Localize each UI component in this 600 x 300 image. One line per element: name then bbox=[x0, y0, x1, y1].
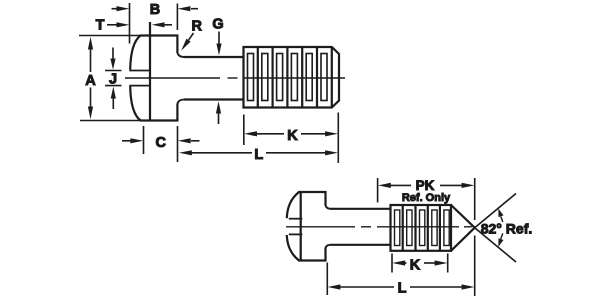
bottom fillet bottom bbox=[326, 245, 332, 249]
dimension G up arrow bbox=[218, 113, 220, 124]
bottom thread crest 3 bbox=[427, 205, 429, 251]
dimension L line and outward arrows bbox=[191, 152, 252, 154]
svg-text:A: A bbox=[85, 73, 96, 89]
thread root rect 3 bbox=[277, 54, 283, 101]
bottom thread root rect 3 bbox=[420, 210, 425, 246]
thread root rect 1 bbox=[248, 54, 254, 101]
bottom shank top line bbox=[331, 208, 392, 210]
extension line A bottom (head bottom extended) bbox=[80, 120, 140, 122]
slot bottom edge + J extension bbox=[105, 85, 122, 87]
bottom thread crest 1 bbox=[402, 205, 404, 251]
dimension J down arrow bbox=[112, 48, 114, 60]
dimension B left arrow bbox=[112, 8, 119, 10]
dimension K line and outward arrows bbox=[256, 133, 284, 135]
thread outline with chamfered end bbox=[244, 47, 340, 108]
extension line B right (head face) bbox=[176, 4, 178, 31]
bottom thread root rect 5 bbox=[444, 210, 449, 246]
head bottom line bbox=[140, 119, 179, 121]
dimension C left arrow bbox=[122, 140, 131, 142]
fillet R under head, top bbox=[177, 52, 184, 57]
bottom screw centerline (left stub) bbox=[286, 226, 355, 228]
extension line PK left bbox=[377, 178, 379, 203]
thread crest line 3 bbox=[286, 47, 288, 108]
svg-text:B: B bbox=[150, 2, 160, 18]
dimension B right arrow bbox=[191, 8, 198, 10]
bottom head face lower bbox=[324, 248, 326, 262]
svg-text:L: L bbox=[254, 147, 263, 163]
thread crest line 1 bbox=[257, 47, 259, 108]
bottom fillet top bbox=[326, 205, 332, 209]
thread root rect 4 bbox=[291, 54, 297, 101]
thread crest line 5 bbox=[316, 47, 318, 108]
centerline of top screw bbox=[125, 77, 220, 79]
screw head dome (left profile) bbox=[130, 36, 140, 70]
angle arrow upper bbox=[501, 217, 503, 223]
thread crest line 2 bbox=[272, 47, 274, 108]
extension line C left bbox=[143, 126, 145, 154]
svg-text:Ref. Only: Ref. Only bbox=[402, 192, 451, 204]
cone angle extension line upper bbox=[475, 194, 516, 228]
extension line C right / L left bbox=[177, 126, 179, 162]
dimension C right arrow bbox=[191, 140, 200, 142]
extension line PK/L right (through cone tip) bbox=[474, 178, 476, 220]
bottom thread box bbox=[391, 205, 452, 251]
svg-text:L: L bbox=[398, 280, 407, 296]
bottom shank bottom line bbox=[331, 244, 392, 246]
svg-text:T: T bbox=[96, 17, 105, 33]
dimension T left arrow bbox=[107, 24, 117, 26]
dimension A down arrow bbox=[90, 88, 92, 108]
slot bottom vertical line (extends above head for T) bbox=[149, 22, 151, 121]
slot top edge + J extension bbox=[105, 70, 122, 72]
leader arrow R (points to fillet) bbox=[189, 33, 194, 40]
extension line A top (head top extended) bbox=[79, 35, 141, 37]
thread root rect 5 bbox=[306, 54, 312, 101]
svg-text:K: K bbox=[287, 128, 298, 144]
thread root rect 6 bbox=[321, 54, 327, 101]
extension line B left (head apex) bbox=[129, 3, 131, 44]
svg-text:R: R bbox=[192, 19, 203, 35]
extension line bottom K left bbox=[391, 254, 393, 273]
cone angle extension line lower bbox=[475, 228, 516, 262]
head face (upper part) bbox=[176, 35, 178, 54]
bottom thread crest 2 bbox=[414, 205, 416, 251]
svg-text:C: C bbox=[155, 135, 166, 151]
bottom head top line bbox=[298, 191, 326, 193]
thread crest line 6 (chamfer start) bbox=[331, 47, 333, 108]
svg-text:82° Ref.: 82° Ref. bbox=[481, 221, 533, 237]
extension line bottom K right bbox=[447, 254, 449, 273]
bottom thread root rect 4 bbox=[432, 210, 437, 246]
bottom slot top edge bbox=[289, 218, 303, 220]
dimension J up arrow bbox=[112, 98, 114, 109]
extension line K left bbox=[243, 115, 245, 146]
bottom thread crest 4 bbox=[439, 205, 441, 251]
extension line bottom L left bbox=[326, 263, 328, 296]
thread root rect 2 bbox=[262, 54, 268, 101]
extension line K/L right bbox=[337, 113, 339, 164]
cone point lower surface bbox=[451, 228, 475, 251]
bottom head face upper bbox=[324, 191, 326, 206]
head face (lower part) bbox=[176, 104, 178, 122]
bottom slot bottom edge bbox=[289, 233, 303, 235]
cone point upper surface bbox=[451, 205, 475, 228]
shank top line bbox=[184, 56, 244, 58]
bottom screw head dome bbox=[287, 192, 299, 218]
svg-text:G: G bbox=[212, 17, 223, 33]
bottom thread root rect 2 bbox=[407, 210, 412, 246]
dimension bottom K line and outward arrows bbox=[404, 262, 407, 264]
bottom head bottom line bbox=[298, 259, 326, 261]
dimension bottom L line and outward arrows bbox=[340, 286, 395, 288]
dimension PK line and outward arrows bbox=[390, 184, 411, 186]
shank bottom line bbox=[184, 98, 244, 100]
thread crest line 4 bbox=[301, 47, 303, 108]
dimension T right arrow bbox=[164, 24, 172, 26]
bottom screw centerline (main) bbox=[377, 226, 459, 228]
svg-text:J: J bbox=[109, 72, 117, 88]
head top line bbox=[140, 34, 179, 36]
svg-text:PK: PK bbox=[416, 178, 435, 193]
dimension A up arrow bbox=[90, 49, 92, 72]
svg-text:K: K bbox=[410, 258, 421, 274]
bottom thread root rect 1 bbox=[395, 210, 400, 246]
dimension G down arrow bbox=[218, 32, 220, 45]
bottom slot bottom vertical line bbox=[300, 193, 302, 260]
angle arrow lower bbox=[501, 233, 503, 239]
fillet under head, bottom bbox=[177, 100, 184, 105]
